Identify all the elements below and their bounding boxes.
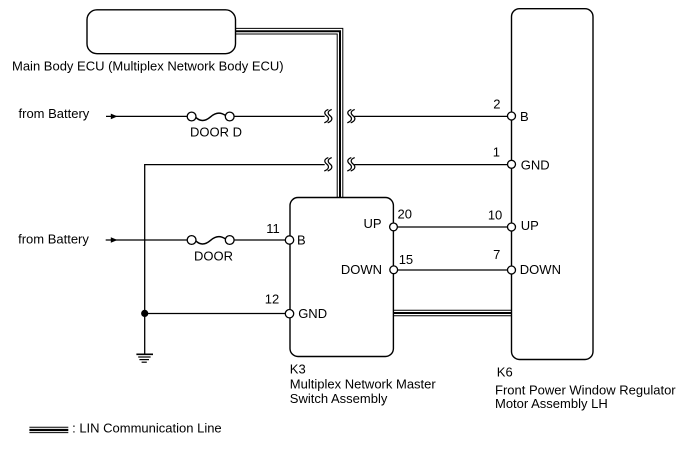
svg-text:K6: K6: [497, 365, 513, 380]
svg-text:1: 1: [493, 145, 500, 160]
svg-text:2: 2: [493, 97, 500, 112]
svg-text:Motor Assembly LH: Motor Assembly LH: [495, 396, 608, 411]
svg-text:from Battery: from Battery: [19, 106, 90, 121]
svg-text:10: 10: [488, 207, 502, 222]
svg-text:from Battery: from Battery: [18, 232, 89, 247]
svg-text:11: 11: [266, 221, 280, 236]
svg-text:DOOR D: DOOR D: [190, 125, 242, 140]
svg-text:B: B: [520, 109, 529, 124]
svg-text:GND: GND: [298, 306, 327, 321]
svg-text:B: B: [297, 233, 306, 248]
svg-text:20: 20: [398, 207, 412, 222]
svg-text:12: 12: [265, 292, 279, 307]
svg-text:Multiplex Network Master: Multiplex Network Master: [290, 377, 437, 392]
svg-text:K3: K3: [290, 361, 306, 376]
svg-text:Front Power Window Regulator: Front Power Window Regulator: [495, 382, 676, 397]
svg-text:Switch Assembly: Switch Assembly: [290, 391, 388, 406]
svg-text:DOWN: DOWN: [341, 262, 382, 277]
svg-text:Main Body ECU (Multiplex Netwo: Main Body ECU (Multiplex Network Body EC…: [12, 58, 284, 73]
svg-text:7: 7: [493, 247, 500, 262]
svg-text:GND: GND: [521, 157, 550, 172]
svg-text:15: 15: [399, 252, 413, 267]
svg-text:UP: UP: [521, 218, 539, 233]
svg-text:DOWN: DOWN: [520, 262, 561, 277]
svg-text:UP: UP: [363, 216, 381, 231]
svg-text:DOOR: DOOR: [194, 249, 233, 264]
svg-text:: LIN Communication Line: : LIN Communication Line: [72, 421, 222, 436]
